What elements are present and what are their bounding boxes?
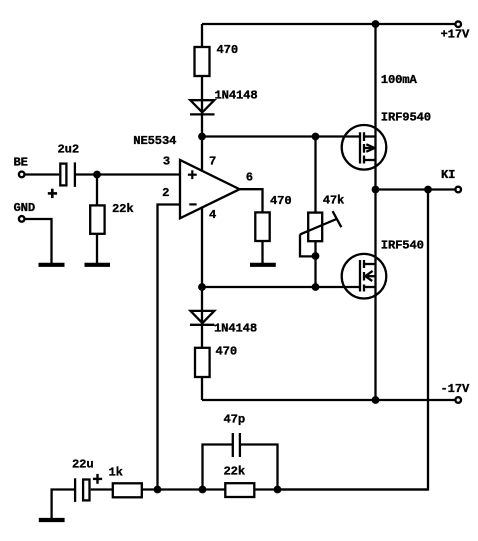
svg-text:4: 4 [209,208,216,222]
wire top rail +17V [202,23,458,25]
svg-text:BE: BE [14,156,28,170]
svg-text:IRF540: IRF540 [381,239,424,253]
resistor R1 470 [195,47,210,76]
ground R2 [85,263,111,267]
svg-text:470: 470 [270,194,292,208]
capacitor C3 47p [233,433,240,457]
node pot bottom tap [312,283,320,291]
terminal -17V [455,397,461,403]
svg-text:1N4148: 1N4148 [215,89,258,103]
node pot top tap [312,133,320,141]
svg-text:22k: 22k [224,465,246,479]
wire opamp output pin6 [240,189,263,212]
svg-text:470: 470 [216,345,238,359]
svg-text:470: 470 [217,43,239,57]
terminal KI [455,187,461,193]
wire C1 to opamp + [75,173,180,175]
capacitor C2 22u [75,478,89,502]
node -17V junction [372,396,380,404]
resistor R5 1k [113,483,142,497]
wire node to R2 [96,175,98,206]
resistor R6 22k [225,483,254,497]
svg-text:47k: 47k [323,194,345,208]
terminal BE [19,172,25,178]
node top rail junction [372,20,380,28]
wire R2 to ground [96,234,98,263]
wire -17V rail [202,399,458,401]
svg-text:+17V: +17V [441,28,470,42]
capacitor C1 2u2 [60,162,75,187]
wire R6 right [256,488,429,490]
wire gate Q2 [202,286,360,288]
wire R1 to D1 [201,76,203,171]
wire R5 to R6 [142,488,226,490]
plus sign C2 [93,474,102,484]
resistor R2 22k [90,205,104,233]
wire pot bottom lead [314,241,316,287]
resistor R3 470 [255,212,269,241]
wire from top rail to R1 [201,24,203,47]
node 22k tap [93,171,101,179]
wire C2 to R5 [91,488,112,490]
plus sign C1 [48,189,57,198]
ground R3 [250,263,276,267]
svg-text:1N4148: 1N4148 [214,322,257,336]
svg-text:100mA: 100mA [381,73,418,87]
svg-text:3: 3 [163,155,170,169]
node KI feedback tap [424,186,432,194]
node gate2 tap [198,283,206,291]
op-amp U1 NE5534 [180,160,240,218]
wire R3 to ground [261,241,263,263]
node 47p right [274,486,282,494]
svg-text:2u2: 2u2 [58,143,80,157]
wire 47p branch left [203,445,233,490]
node gate1 tap [198,133,206,141]
wire opamp pin4 down [201,207,203,348]
node KI left [372,186,380,194]
wire feedback right vertical [278,190,429,490]
svg-text:6: 6 [246,171,253,185]
node pot wiper junction [312,252,320,260]
svg-text:47p: 47p [224,413,246,427]
svg-text:IRF9540: IRF9540 [381,111,431,125]
terminal +17V [455,21,461,27]
wire opamp pin2 [158,205,181,490]
wire 47p branch right [240,445,278,490]
diode D1 1N4148 [190,100,215,114]
wire pot top lead [314,137,316,213]
svg-text:22u: 22u [72,458,94,472]
potentiometer P1 47k [300,211,341,256]
wire main vertical drain line [374,24,376,400]
svg-text:NE5534: NE5534 [133,134,176,148]
svg-text:22k: 22k [112,202,134,216]
terminal GND [19,216,25,222]
ground GND input [39,263,65,267]
svg-text:-17V: -17V [441,382,470,396]
transistor Q1 IRF9540 [342,125,387,170]
node feedback inverting [154,486,162,494]
resistor R4 470 [195,348,210,377]
transistor Q2 IRF540 [342,254,387,299]
diode D2 1N4148 [190,311,215,325]
svg-text:2: 2 [162,186,169,200]
svg-text:1k: 1k [109,466,123,480]
svg-text:KI: KI [441,168,455,182]
wire gate Q1 [202,135,360,137]
node 47p left [199,486,207,494]
ground bottom left [39,490,75,521]
wire R4 to -17V rail [201,377,203,400]
wire BE to C1 [25,173,60,175]
svg-text:7: 7 [209,155,216,169]
svg-text:GND: GND [14,201,36,215]
wire GND terminal [25,219,52,263]
wire KI output [376,188,459,190]
